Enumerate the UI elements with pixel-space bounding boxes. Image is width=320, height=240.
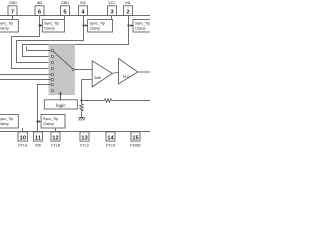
wire to mux contact 6 (from off-page left) bbox=[0, 79, 51, 81]
sync tip clamp U1 (left clipped) bbox=[0, 20, 18, 33]
IC bottom border bbox=[0, 131, 150, 133]
wire IN2 route to mux contact 3 bbox=[17, 16, 84, 63]
mux contact 2 bbox=[51, 55, 53, 57]
mux contact 7 bbox=[51, 83, 53, 85]
svg-text:10: 10 bbox=[20, 135, 26, 141]
wire arrow IN3 into clamp U2 bbox=[40, 25, 41, 27]
svg-text:logic: logic bbox=[56, 103, 66, 108]
wire mux output to amp A1 bbox=[74, 69, 92, 71]
wire amp A1 feedback input bbox=[82, 79, 93, 81]
sync tip clamp U4 (right clipped) bbox=[133, 20, 156, 33]
svg-text:Sync_Tip: Sync_Tip bbox=[44, 22, 59, 26]
wire to mux contact 1 bbox=[27, 47, 52, 51]
svg-text:11: 11 bbox=[35, 135, 42, 141]
sync tip clamp U3 bbox=[88, 20, 113, 33]
svg-text:Clamp: Clamp bbox=[0, 27, 9, 31]
sync tip clamp U5 (left clipped) bbox=[0, 115, 18, 129]
svg-text:12: 12 bbox=[52, 135, 58, 141]
svg-text:CTLA: CTLA bbox=[18, 144, 28, 148]
mux contact 5 bbox=[51, 73, 53, 75]
node IN5 junction bbox=[36, 120, 38, 122]
mux output contact bbox=[72, 68, 74, 70]
sync tip clamp U6 bbox=[41, 115, 65, 129]
svg-text:Clamp: Clamp bbox=[0, 122, 9, 126]
svg-text:Clamp: Clamp bbox=[44, 27, 55, 31]
mux contact 1 bbox=[51, 49, 53, 51]
svg-text:Sync_Tip: Sync_Tip bbox=[43, 117, 58, 121]
wire arrow IN2 into clamp U3 bbox=[84, 25, 86, 27]
pin 5 box bbox=[61, 6, 70, 16]
mux contact 3 bbox=[51, 61, 53, 63]
svg-text:GND: GND bbox=[61, 1, 69, 5]
mux contact 6 bbox=[51, 78, 53, 80]
IC top border bbox=[0, 15, 150, 17]
svg-text:Sync_Tip: Sync_Tip bbox=[0, 117, 13, 121]
svg-text:IN2: IN2 bbox=[80, 1, 86, 5]
pin 14 box bbox=[106, 132, 115, 141]
pin 7 box bbox=[8, 6, 17, 16]
svg-text:13: 13 bbox=[81, 135, 88, 141]
svg-text:CTLC: CTLC bbox=[80, 144, 90, 148]
pin 10 box bbox=[18, 132, 28, 141]
pin 13 box bbox=[80, 132, 89, 141]
svg-text:IN5: IN5 bbox=[35, 144, 41, 148]
mux wiper bbox=[53, 51, 72, 68]
svg-text:7: 7 bbox=[11, 9, 14, 15]
resistor R1 (gain set, vertical) bbox=[80, 104, 84, 111]
wire pin10 stub bbox=[22, 128, 24, 132]
wire A1 to A2 bbox=[112, 72, 118, 73]
wire feedback vertical bbox=[81, 80, 83, 104]
svg-text:VCC: VCC bbox=[108, 1, 116, 5]
svg-text:Clamp: Clamp bbox=[43, 122, 54, 126]
node IN2 junction bbox=[82, 24, 84, 26]
pin 15 box bbox=[131, 132, 140, 141]
wire feedback to right edge bbox=[112, 100, 151, 102]
svg-text:GND: GND bbox=[9, 1, 17, 5]
pin 3 box bbox=[108, 6, 117, 16]
svg-text:CTLD: CTLD bbox=[106, 144, 116, 148]
mux contact 4 bbox=[51, 67, 53, 69]
svg-text:IN3: IN3 bbox=[37, 1, 43, 5]
svg-text:14: 14 bbox=[107, 135, 114, 141]
wire pin12 stub bbox=[55, 128, 57, 132]
wire IN3 route to mux contact 4 bbox=[12, 16, 52, 69]
wire pin5 stub bbox=[64, 16, 66, 20]
svg-text:Sync_Tip: Sync_Tip bbox=[135, 22, 150, 26]
svg-text:2: 2 bbox=[126, 9, 129, 15]
ground bbox=[79, 118, 86, 121]
pin 12 box bbox=[51, 132, 60, 141]
svg-text:PGND: PGND bbox=[130, 144, 141, 148]
op-amp A1 6dB bbox=[92, 61, 112, 87]
svg-text:Sync_Tip: Sync_Tip bbox=[90, 22, 105, 26]
op-amp A2 75 ohm driver bbox=[119, 59, 138, 84]
node IN1 junction bbox=[127, 24, 129, 26]
mux block bbox=[49, 44, 75, 95]
svg-text:Clamp: Clamp bbox=[90, 27, 101, 31]
wire arrow IN5 into clamp U6 bbox=[38, 121, 40, 123]
svg-text:CTLB: CTLB bbox=[51, 144, 61, 148]
mux contact 8 bbox=[51, 89, 53, 91]
svg-text:IN1: IN1 bbox=[125, 1, 131, 5]
svg-text:6dB: 6dB bbox=[95, 76, 102, 80]
wire IN5 route from pin 11 to mux contact 7 bbox=[38, 85, 52, 132]
wire pin3 stub bbox=[111, 16, 113, 20]
pin 6 box bbox=[35, 6, 44, 16]
resistor R2 (feedback, horizontal) bbox=[105, 99, 112, 103]
wire resistor R1 to ground bbox=[81, 111, 83, 118]
pin 4 box bbox=[79, 6, 88, 16]
wire arrow IN1 into clamp U4 bbox=[129, 25, 132, 27]
sync tip clamp U2 bbox=[42, 20, 64, 33]
wire pin7 stub bbox=[12, 16, 14, 20]
wire IN1 route to mux contact 2 bbox=[23, 16, 129, 57]
svg-text:15: 15 bbox=[132, 135, 139, 141]
wire output to right edge bbox=[138, 71, 150, 73]
wire feedback horizontal bbox=[82, 100, 105, 102]
svg-text:Sync_Tip: Sync_Tip bbox=[0, 22, 13, 26]
wire arrow logic to mux bbox=[60, 94, 62, 100]
pin 11 box bbox=[34, 132, 43, 141]
node feedback junction bbox=[80, 99, 82, 101]
pin 2 box bbox=[124, 6, 133, 16]
wire to mux contact 5 (from off-page left) bbox=[0, 74, 51, 76]
svg-text:Clamp: Clamp bbox=[135, 27, 146, 31]
node IN3 junction bbox=[38, 24, 40, 26]
logic block bbox=[44, 100, 77, 109]
svg-text:75 Ω: 75 Ω bbox=[122, 75, 130, 79]
